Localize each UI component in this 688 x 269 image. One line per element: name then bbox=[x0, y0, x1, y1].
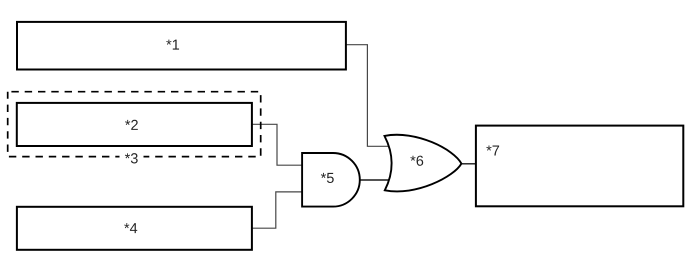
label *3 (white halo over dashed border) bbox=[120, 150, 144, 164]
label *2 bbox=[125, 120, 138, 130]
wire from *4 to AND gate *5 bbox=[252, 192, 302, 228]
label *4 bbox=[124, 223, 137, 233]
label *5 bbox=[321, 173, 334, 183]
block *4 bbox=[17, 207, 252, 250]
label *1 bbox=[166, 40, 179, 50]
label *7 bbox=[486, 146, 499, 156]
wire from *1 to OR gate *6 bbox=[346, 45, 389, 147]
block *1 bbox=[17, 22, 346, 70]
block *7 bbox=[476, 126, 683, 207]
block *2 bbox=[17, 103, 252, 146]
wire AND *5 output to OR *6 bbox=[360, 179, 389, 181]
label *6 bbox=[410, 156, 423, 166]
wire from *2 to AND gate *5 bbox=[252, 124, 302, 165]
AND gate *5 bbox=[302, 153, 360, 207]
wire OR *6 output to *7 bbox=[461, 163, 476, 165]
OR gate *6 bbox=[385, 135, 462, 192]
dashed container *3 bbox=[8, 92, 261, 157]
